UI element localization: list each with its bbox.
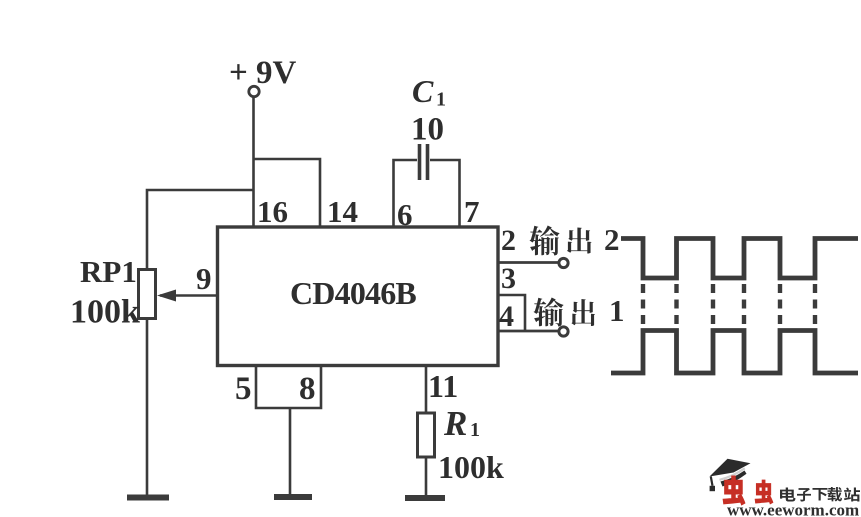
waveform output 1 trace — [611, 331, 858, 374]
svg-text:4: 4 — [499, 300, 514, 333]
output2 terminal — [559, 258, 568, 267]
svg-text:C: C — [412, 73, 434, 109]
svg-text:www.eeworm.com: www.eeworm.com — [727, 501, 859, 517]
capacitor C1 plates — [418, 144, 422, 180]
svg-text:R: R — [443, 404, 467, 443]
svg-text:RP1: RP1 — [80, 254, 137, 289]
wire pin11 to R1 — [425, 365, 428, 413]
svg-text:3: 3 — [501, 262, 516, 295]
svg-text:100k: 100k — [70, 294, 140, 331]
ground (pins 5/8) — [274, 494, 312, 500]
svg-text:1: 1 — [470, 419, 480, 441]
watermark 虫虫 red — [723, 476, 745, 505]
watermark cap swoosh highlight — [720, 468, 745, 480]
waveform output 2 trace — [621, 239, 858, 279]
svg-text:100k: 100k — [438, 449, 504, 485]
svg-text:10: 10 — [411, 112, 444, 148]
svg-text:16: 16 — [257, 194, 288, 229]
wire 5/8 loop to ground — [289, 408, 292, 496]
svg-text:+ 9V: + 9V — [229, 55, 297, 91]
svg-text:2: 2 — [604, 222, 620, 257]
label 输出 1 (output 1) — [533, 298, 563, 327]
svg-text:14: 14 — [327, 194, 358, 229]
+9V terminal — [249, 86, 259, 96]
potentiometer RP1 body — [139, 270, 156, 319]
svg-text:CD4046B: CD4046B — [290, 275, 416, 311]
svg-text:1: 1 — [436, 89, 446, 111]
watermark 电子下载站 — [780, 487, 796, 501]
svg-text:6: 6 — [397, 197, 413, 232]
svg-text:8: 8 — [299, 371, 316, 407]
svg-text:5: 5 — [235, 371, 252, 407]
wire R1 to ground — [425, 457, 428, 496]
svg-text:7: 7 — [464, 194, 480, 229]
wire pin2 to output2 terminal — [498, 261, 558, 264]
wire C1 right plate to pin7 — [430, 160, 460, 227]
wire pin4 to output1 terminal — [498, 330, 558, 333]
wire +9V down to pin 16 — [252, 97, 255, 227]
watermark cap tassel — [711, 477, 713, 486]
wire pin3 to pin4 loop — [498, 295, 525, 331]
watermark graduation cap board — [710, 459, 751, 477]
wire pin5 to pin8 loop below IC — [256, 365, 321, 408]
svg-text:1: 1 — [609, 293, 625, 328]
wire pin16 to pin14 loop — [254, 159, 321, 227]
IC U1 CD4046B body — [218, 227, 499, 366]
label 输出 2 (output 2) — [529, 226, 559, 256]
capacitor C1 loop: wire pin6 up to left plate — [394, 160, 418, 227]
RP1 wiper arrow from pin 9 — [160, 294, 217, 297]
svg-text:11: 11 — [428, 368, 458, 404]
ground (R1) — [405, 495, 445, 501]
svg-text:9: 9 — [196, 261, 212, 296]
output1 terminal — [559, 327, 568, 336]
resistor R1 body — [418, 413, 435, 457]
watermark cap crown crescent — [721, 471, 747, 487]
wire RP1 bottom to ground — [146, 319, 149, 497]
waveform transition dashed links — [643, 284, 815, 326]
wire RP1 top to +9V rail — [147, 190, 254, 270]
ground (RP1) — [127, 495, 169, 501]
svg-text:2: 2 — [501, 224, 516, 257]
